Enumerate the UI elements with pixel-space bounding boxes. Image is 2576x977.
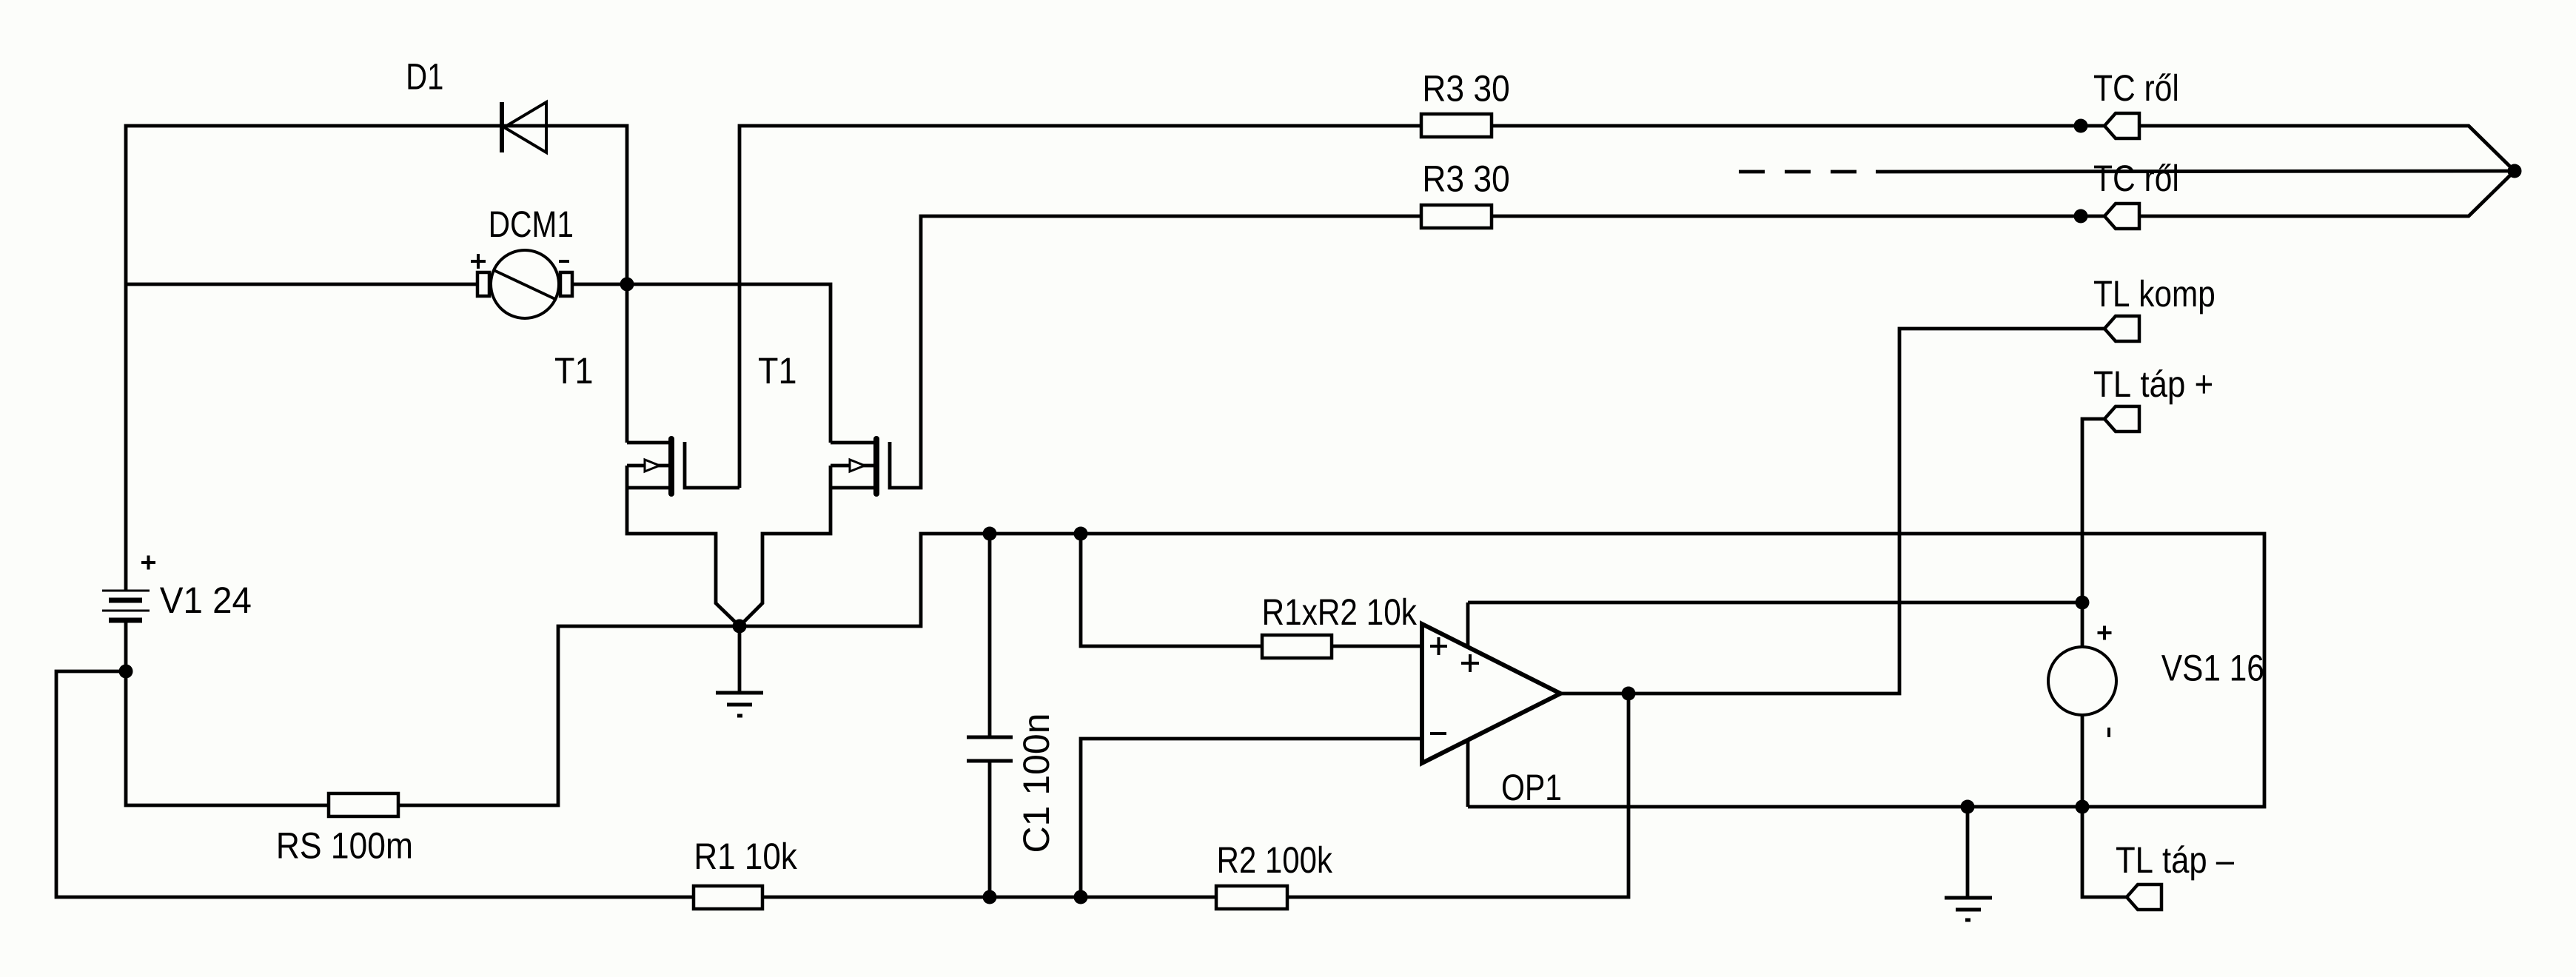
node: bottom rail / C1 junction	[983, 890, 997, 904]
transistor T1b channel bar	[873, 439, 879, 494]
wire: DCM1 rail y384 and drop to T1b drain	[126, 284, 831, 443]
label R3 30 bottom	[1425, 166, 1509, 192]
resistor R1xR2 body	[1262, 635, 1332, 658]
connector TC rol bottom	[2104, 204, 2139, 229]
node: V1- / RS junction	[119, 665, 133, 679]
resistor R2 body	[1216, 886, 1287, 909]
transistor T1a channel bar	[668, 439, 674, 494]
motor DCM1 slash	[494, 270, 557, 300]
label T1 right	[759, 358, 795, 383]
label DCM1	[491, 211, 572, 237]
label RS 100m	[279, 833, 412, 859]
wire: T1b gate/source down to common point	[739, 466, 831, 626]
wire: V1+ riser, top rail to D1 anode branch, down to T1a drain	[126, 126, 627, 591]
label R3 30 top	[1425, 75, 1509, 101]
wire: T1a right plate and run to x999	[685, 442, 739, 488]
source VS1 plus mark	[2098, 626, 2112, 640]
motor DCM1 plus mark	[471, 254, 486, 269]
ground GND1 bar2	[727, 703, 752, 707]
battery V1 plate long+	[102, 610, 150, 612]
node: T1 common source / sense junction	[733, 620, 747, 634]
label TL tap+	[2094, 369, 2212, 404]
motor DCM1 left terminal box	[477, 272, 489, 296]
node: thermocouple tip	[2508, 164, 2522, 178]
connector TL tap-	[2127, 884, 2161, 910]
transistor T1a gate arrow	[645, 460, 660, 471]
label OP1	[1503, 774, 1560, 800]
wire: C1 branch lower	[988, 761, 992, 897]
node: TC rol top junction	[2074, 119, 2088, 133]
node: ground rail / C1 junction	[983, 527, 997, 541]
node: TC rol bottom junction	[2074, 209, 2088, 224]
ground GND2 bar2	[1956, 908, 1981, 912]
transistor T1b gate arrow	[850, 460, 865, 471]
capacitor C1 bottom plate	[967, 759, 1013, 763]
wire: T1a source stub	[627, 486, 668, 490]
resistor R3a body	[1421, 114, 1492, 137]
node: V- rail / GND2 junction	[1961, 800, 1975, 814]
label TC rol bottom	[2094, 164, 2177, 191]
motor DCM1 right terminal box	[560, 272, 572, 296]
source VS1 minus mark	[2107, 728, 2110, 737]
resistor R1 body	[694, 886, 762, 909]
label TL tap-	[2116, 845, 2234, 880]
wire: TL tap+ lead down through VS1 to TL tap- lead	[2082, 419, 2127, 897]
wire: C1 branch upper	[988, 534, 992, 737]
wire: V- rail drop to GND2	[1966, 807, 1970, 898]
node: bottom rail / -input junction	[1074, 890, 1088, 904]
wire: V1- down, RS run, riser x754, sense rail y846, riser x1244, ground rail y721, right edge down, V- rail y1090	[126, 534, 2264, 807]
wire: TC middle lead dashes	[1739, 170, 1765, 174]
wire: T1b drain stub	[831, 441, 875, 445]
label R1xR2 10k	[1264, 598, 1417, 625]
op-amp OP1 plus input mark	[1430, 637, 1447, 655]
wire: OP1 output, riser x2566, TL komp lead	[1560, 329, 2104, 694]
wire: T1a gate stub	[627, 464, 668, 468]
label T1 left	[555, 358, 591, 383]
resistor RS body	[329, 793, 398, 816]
connector TC rol top	[2104, 113, 2139, 138]
wire: T1b gate stub	[831, 464, 873, 468]
node: ground rail / +input junction	[1074, 527, 1088, 541]
battery V1 plus mark	[141, 556, 155, 570]
source VS1 body circle	[2048, 647, 2116, 715]
label D1	[409, 64, 443, 89]
wire: T1b right plate, riser x1244, R3b rail y292, diagonal to TC tip	[890, 171, 2515, 488]
node: DCM1- / D1 / T1a drain junction	[620, 278, 634, 292]
wire: T1a gate/source down to common point	[627, 466, 739, 626]
wire: battery node stub left, far-left drop, bottom sense/feedback rail, up to OP1 output	[56, 671, 1629, 897]
op-amp OP1 minus input mark	[1430, 732, 1446, 735]
label C1 100n (rotated)	[1023, 716, 1049, 851]
battery V1 plate short-	[109, 598, 142, 603]
diode D1 cathode bar	[500, 102, 504, 152]
op-amp OP1 triangle	[1422, 624, 1560, 763]
motor DCM1 body circle	[491, 250, 559, 318]
wire: OP1 V+ rail y814	[1468, 601, 2082, 605]
wire: T1b source stub	[831, 486, 875, 490]
wire: node x999 riser, R3a rail y170, diagonal to TC tip	[739, 126, 2515, 488]
connector TL komp	[2104, 316, 2139, 341]
ground GND2 bar1	[1945, 896, 1992, 900]
node: V+ rail / TL tap+ junction	[2076, 596, 2090, 610]
resistor R3b body	[1421, 205, 1492, 228]
label V1 24	[160, 587, 251, 613]
label R2 100k	[1219, 846, 1332, 873]
diode D1 triangle	[504, 102, 546, 152]
ground GND1 bar3	[737, 714, 742, 718]
wire: OP1 +input branch through R1xR2	[1081, 534, 1422, 646]
op-amp OP1 plus supply mark	[1461, 654, 1479, 672]
connector TL tap+	[2104, 406, 2139, 432]
label VS1 16	[2161, 655, 2263, 681]
battery V1 plate long+	[102, 590, 150, 592]
wire: common point to ground GND1	[738, 626, 742, 693]
wire: OP1 -input branch from R1/R2 node	[1081, 739, 1422, 897]
wire: T1a drain stub	[627, 441, 670, 445]
label TL komp	[2094, 280, 2214, 315]
wire: OP1 supply box left edge	[1466, 602, 1470, 807]
node: V- rail / VS1- junction	[2076, 800, 2090, 814]
node: OP1 output junction	[1622, 687, 1636, 701]
wire: TC middle lead solid to tip	[1876, 171, 2515, 172]
battery V1 plate short-	[109, 618, 142, 623]
motor DCM1 minus mark	[559, 260, 569, 263]
label TC rol top	[2094, 73, 2177, 101]
label R1 10k	[697, 842, 797, 870]
ground GND1 bar1	[716, 691, 763, 695]
capacitor C1 top plate	[967, 736, 1013, 739]
ground GND2 bar3	[1965, 919, 1970, 922]
